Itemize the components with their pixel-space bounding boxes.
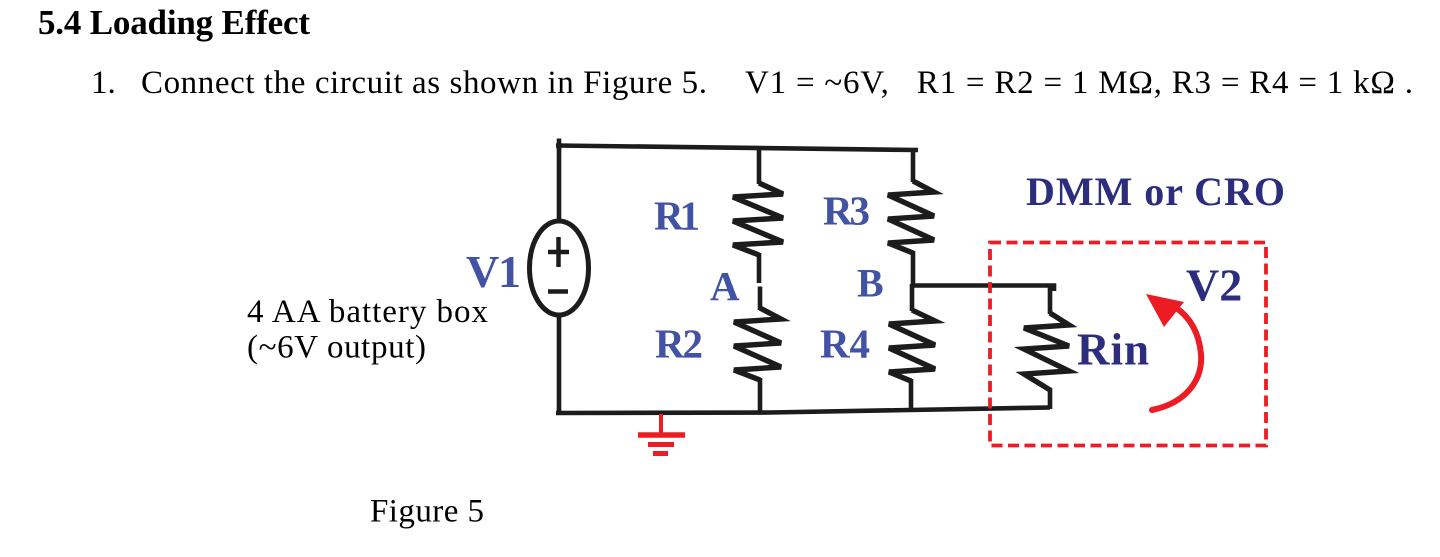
wire: top rail bbox=[556, 146, 918, 151]
svg-text:R4: R4 bbox=[820, 320, 870, 366]
svg-text:DMM or CRO: DMM or CRO bbox=[1026, 169, 1285, 214]
wire: R4 top lead from node B bbox=[910, 284, 915, 311]
wire: node B to Rin top lead bbox=[911, 286, 1054, 292]
resistor R3 bbox=[888, 181, 934, 253]
svg-text:V1 = ~6V, R1 = R2 = 1 MΩ, R3: V1 = ~6V, R1 = R2 = 1 MΩ, R3 = R4 = 1 kΩ… bbox=[745, 65, 1413, 101]
wire: battery top tick (overshoot above rail) bbox=[557, 139, 562, 151]
ground (red earth symbol) bbox=[638, 414, 685, 454]
svg-text:R1: R1 bbox=[654, 193, 700, 239]
svg-text:B: B bbox=[857, 261, 884, 306]
wire: R4 bottom lead bbox=[909, 379, 914, 412]
svg-text:Connect the circuit as shown i: Connect the circuit as shown in Figure 5… bbox=[141, 65, 707, 101]
svg-text:V1: V1 bbox=[466, 246, 521, 297]
wire: R3 top lead bbox=[911, 150, 916, 182]
node A wire (R1-R2 junction) bbox=[757, 253, 762, 283]
voltage source V1 (battery symbol) bbox=[530, 221, 589, 315]
svg-text:5.4 Loading Effect: 5.4 Loading Effect bbox=[38, 3, 310, 42]
wire: battery positive lead bbox=[557, 145, 562, 223]
wire: bottom rail bbox=[556, 408, 1050, 414]
resistor R4 bbox=[889, 310, 935, 381]
svg-text:R3: R3 bbox=[823, 188, 870, 234]
svg-text:Rin: Rin bbox=[1077, 325, 1149, 375]
svg-text:1.: 1. bbox=[91, 65, 116, 101]
wire: Rin bottom lead bbox=[1048, 388, 1053, 409]
svg-text:A: A bbox=[710, 263, 740, 309]
svg-text:4 AA battery box: 4 AA battery box bbox=[247, 294, 489, 330]
DMM/CRO boundary (red dashed box) bbox=[990, 243, 1266, 446]
svg-text:(~6V output): (~6V output) bbox=[247, 330, 426, 366]
resistor R2 bbox=[734, 308, 781, 380]
wire: R3 bottom lead to node B bbox=[911, 251, 916, 284]
svg-text:R2: R2 bbox=[655, 320, 703, 366]
wire: R1 top lead bbox=[757, 147, 762, 184]
svg-text:V2: V2 bbox=[1186, 260, 1242, 311]
wire: battery negative lead bbox=[557, 314, 562, 414]
V2 measurement arrow (red) bbox=[1152, 307, 1201, 410]
svg-text:Figure 5: Figure 5 bbox=[370, 494, 484, 530]
wire: R2 bottom lead bbox=[758, 378, 763, 413]
resistor R1 bbox=[733, 183, 783, 255]
resistor Rin bbox=[1024, 313, 1069, 390]
